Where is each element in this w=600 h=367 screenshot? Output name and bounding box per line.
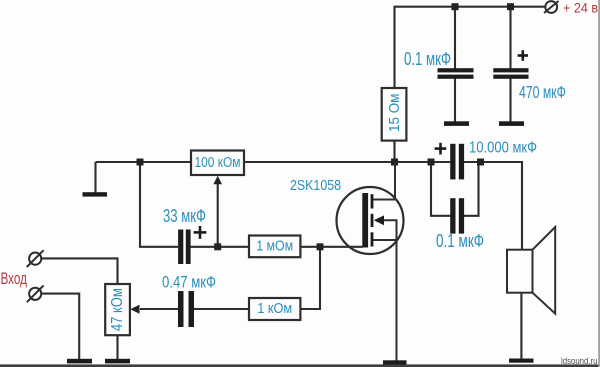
wire output branch 0.1 мкФ loop right [464, 162, 479, 216]
ground (input) [67, 359, 92, 364]
resistor 47 кОм [105, 284, 130, 335]
wire +24V top rail [395, 6, 546, 8]
wire node A down to 33 мкФ [140, 161, 178, 247]
wire mid rail left segment [96, 161, 192, 163]
capacitor 10.000 мкФ (plates) [450, 144, 464, 180]
plus sign of 470 мкФ [518, 50, 528, 61]
capacitor 0.47 мкФ (plates) [178, 291, 194, 327]
plus sign of 10.000 мкФ [435, 143, 447, 155]
arrowhead into 100 кОм [213, 176, 222, 184]
terminal input 2 [27, 285, 44, 302]
wire rail to capacitor 470 мкФ [509, 7, 511, 69]
wire output cap to speaker corner [464, 162, 522, 250]
ground (speaker) [509, 359, 534, 363]
junction node 33 мкФ / 1 мОм [214, 243, 221, 250]
svg-text:100 кОм: 100 кОм [195, 155, 241, 171]
svg-text:10.000 мкФ: 10.000 мкФ [469, 140, 537, 157]
wire arrow node to 100 кОм [217, 179, 219, 247]
arrowhead body (points left) [374, 215, 384, 225]
transistor channel segment middle [371, 214, 374, 227]
svg-text:15 Ом: 15 Ом [386, 94, 403, 133]
junction node drain [391, 159, 398, 166]
right border line [598, 0, 600, 367]
svg-text:33 мкФ: 33 мкФ [163, 206, 206, 226]
capacitor 0.1 мкФ (output, plates) [450, 198, 464, 233]
wire input terminal 1 to 47 кОм [42, 258, 118, 284]
capacitor 470 мкФ (plates) [493, 68, 528, 79]
transistor gate bar [362, 193, 368, 248]
bottom border line [0, 364, 600, 367]
transistor channel segment bottom [371, 232, 374, 246]
wire capacitor 470 мкФ to ground [509, 79, 511, 122]
svg-text:Вход: Вход [1, 270, 28, 288]
svg-text:0.1 мкФ: 0.1 мкФ [404, 49, 451, 69]
wire drain stub [373, 161, 395, 200]
transistor 2SK1058 circle [337, 187, 404, 254]
junction node on rail at 0.1 мкФ [452, 3, 459, 10]
speaker horn [533, 227, 556, 314]
wire capacitor 0.1 мкФ to ground [454, 79, 456, 122]
svg-text:0.47 мкФ: 0.47 мкФ [162, 272, 216, 291]
wire 33 мкФ to 1 мОм [191, 246, 250, 248]
wire input terminal 2 to ground [42, 294, 79, 360]
junction node output cap left [428, 159, 435, 166]
junction node output cap right [477, 159, 484, 166]
svg-text:470 мкФ: 470 мкФ [519, 82, 566, 102]
svg-text:1 мОм: 1 мОм [256, 238, 293, 254]
resistor 1 кОм [249, 298, 300, 320]
junction node A (100 кОм left) [137, 159, 144, 166]
wire 1 кОм to 0.47 мкФ [194, 308, 249, 310]
wire 1 мОм to gate node [300, 246, 362, 248]
capacitor 33 мкФ (plates) [178, 230, 191, 265]
speaker box [507, 250, 533, 293]
wire left ground lead [94, 162, 96, 193]
wire speaker to ground [520, 293, 522, 360]
svg-text:47 кОм: 47 кОм [109, 288, 126, 331]
ground (source) [383, 360, 407, 364]
wire output branch 0.1 мкФ loop left [431, 162, 450, 216]
svg-text:0.1 мкФ: 0.1 мкФ [436, 231, 484, 251]
resistor 1 мОм [249, 236, 300, 258]
svg-text:1 кОм: 1 кОм [257, 301, 292, 317]
wire source stub [373, 240, 397, 361]
transistor channel segment top [371, 194, 374, 208]
ground (under 470 мкФ) [499, 121, 524, 126]
wire 0.47 мкФ toward 47 кОм arrow [140, 308, 178, 310]
wire rail to 15 Ом resistor [393, 6, 395, 88]
wire rail to capacitor 0.1 мкФ [454, 7, 456, 69]
plus sign of 33 мкФ [194, 226, 207, 239]
svg-text:+ 24 в: + 24 в [563, 0, 598, 16]
terminal +24 в [544, 1, 559, 13]
resistor 100 кОм [191, 151, 244, 176]
capacitor 0.1 мкФ (top, plates) [438, 68, 474, 79]
junction node on rail at 470 мкФ [507, 3, 514, 10]
ground (47 кОм) [105, 359, 130, 364]
arrowhead into 47 кОм [130, 305, 139, 314]
wire gate node down to 1 кОм [300, 247, 320, 309]
wire 100 кОм to drain node to output cap [244, 161, 450, 163]
wire body stub [384, 220, 397, 240]
ground (left bias) [83, 192, 108, 196]
resistor 15 Ом [382, 88, 407, 141]
wire 15 Ом to drain node [393, 141, 395, 162]
terminal input 1 [27, 250, 44, 267]
svg-text:2SK1058: 2SK1058 [290, 178, 341, 194]
ground (under 0.1 мкФ top) [444, 121, 469, 126]
junction node gate [317, 243, 324, 250]
wire 47 кОм to ground [116, 335, 118, 359]
